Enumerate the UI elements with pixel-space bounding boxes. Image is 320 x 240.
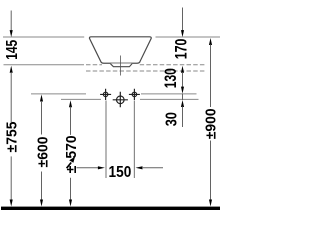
dim 900 top up arrowhead [209,38,212,45]
dim 130 up arrowhead [181,66,184,73]
dim 150 right arrowhead (points right) [98,166,105,169]
dim 150 right line [142,167,163,169]
dim 30 lower line [182,107,184,128]
mask under basin bottom [102,64,140,66]
dim 570 floor down arrowhead [69,200,72,207]
washbasin body (side view) [89,37,151,63]
dim 150 left line [77,167,99,169]
svg-text:30: 30 [163,112,181,126]
dim 755 up arrowhead at counter [10,66,13,73]
dim 900 floor down arrowhead [209,200,212,207]
top reference line (rim level) right segment [156,36,221,38]
dim 130 down arrowhead [181,87,184,94]
dim 170 upper line [182,8,184,31]
dim 600 line lower [41,172,43,201]
extension line right (150 dim) [133,101,135,179]
dim 600 line upper [41,101,43,135]
countertop solid line [4,64,85,66]
svg-text:150: 150 [109,164,132,181]
dim 600 up arrowhead [40,95,43,102]
dim 600 floor down arrowhead [40,200,43,207]
dim 755 line upper [10,72,12,122]
dim 30 up arrowhead [181,100,184,107]
top reference line (rim level) left segment [3,36,84,38]
svg-text:±755: ±755 [4,122,21,153]
right supply connection cross [129,89,140,100]
dim line connector between 600 and 570 levels [182,94,184,100]
dim 170 down arrowhead [181,30,184,37]
dim 755 floor down arrowhead [10,200,13,207]
svg-text:145: 145 [2,40,20,60]
dim 130 line [182,72,184,87]
svg-text:±: ± [63,166,80,174]
label 570 adjust arrow (NE) [67,163,72,169]
drain connection circle [113,92,128,107]
570-level line left [61,98,101,100]
dim 755 line lower [10,156,12,200]
countertop dashed line upper [86,64,205,66]
extension line left (150 dim) [105,101,107,179]
svg-text:570: 570 [63,135,80,158]
svg-text:±600: ±600 [35,137,52,168]
washbasin foot / drain [111,63,133,66]
dim 570 up arrowhead [69,100,72,107]
basin centerline [119,56,121,76]
dim 900 line lower [210,141,212,201]
dim 570 line lower [70,178,72,201]
600-level line left [31,93,86,95]
dim 145 down arrowhead [10,30,13,37]
dim 570 line upper [70,107,72,135]
svg-text:±900: ±900 [203,108,220,139]
svg-text:130: 130 [162,68,180,88]
dim 900 line upper [210,45,212,108]
left supply connection cross [100,89,111,100]
600-level line right [141,93,197,95]
dim 145 upper arrow line [10,11,12,31]
floor line [1,207,220,210]
svg-text:170: 170 [173,39,191,60]
countertop dashed line lower [86,70,205,72]
dim 150 left arrowhead (points left) [136,166,143,169]
570-level line right [140,98,199,100]
